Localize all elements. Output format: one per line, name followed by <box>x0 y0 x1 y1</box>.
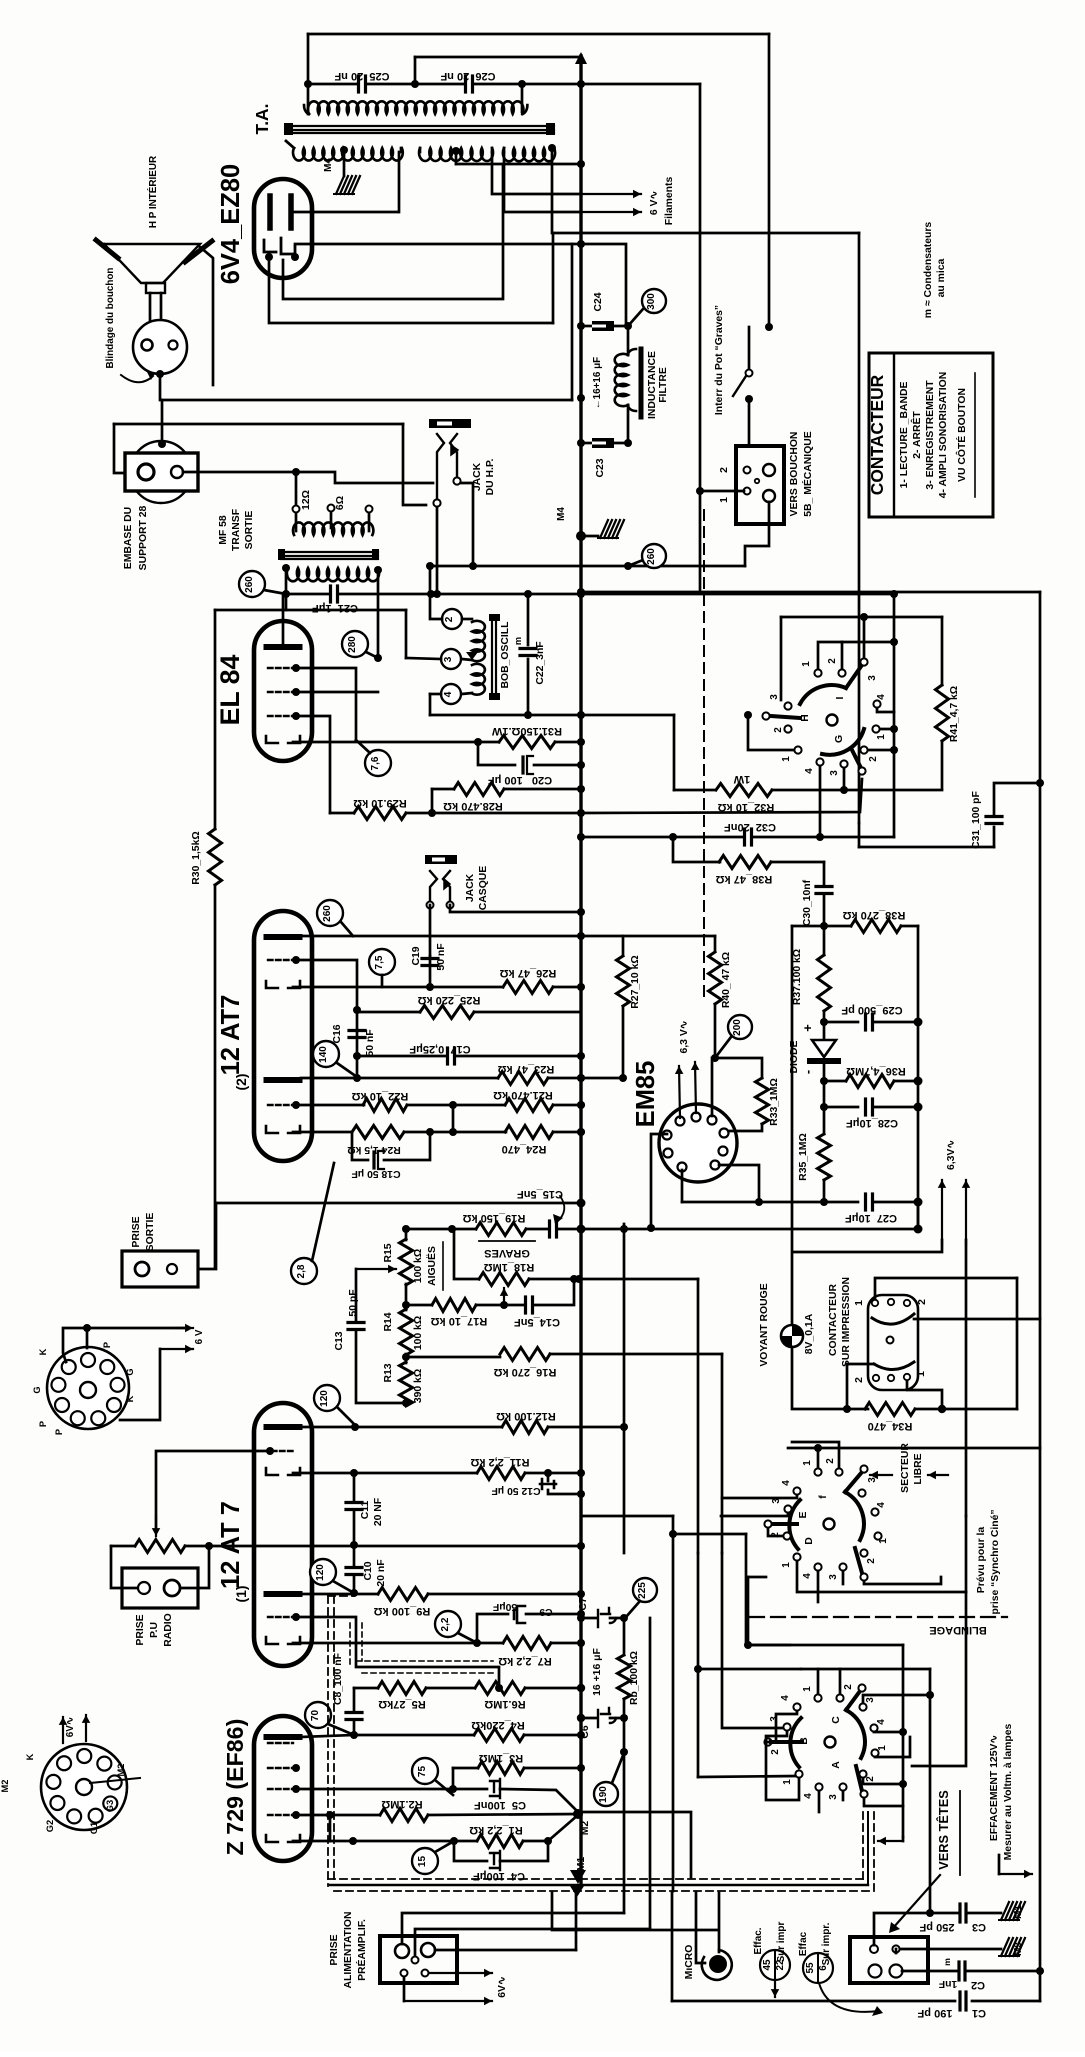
wire top-left down to transformer <box>307 34 310 114</box>
secondary 2 ends down <box>419 148 422 152</box>
svg-text:R11_2,2 kΩ: R11_2,2 kΩ <box>470 1456 529 1468</box>
pointer line 2,8 <box>312 1163 334 1261</box>
contacteur pins top <box>872 1300 878 1306</box>
wire 6V heater line 1 <box>492 152 581 194</box>
svg-text:200: 200 <box>732 1019 743 1036</box>
svg-text:6V∿: 6V∿ <box>497 1976 508 1997</box>
wafer DEF wires left <box>746 1644 790 1647</box>
node C24 right <box>624 322 632 330</box>
svg-text:R29.10 kΩ: R29.10 kΩ <box>353 797 407 809</box>
vers bouchon pin big top <box>763 464 775 476</box>
svg-text:4: 4 <box>803 1793 814 1799</box>
wafer DEF center <box>824 1519 835 1530</box>
svg-text:R22_10 kΩ: R22_10 kΩ <box>352 1090 409 1102</box>
svg-text:260: 260 <box>322 905 333 922</box>
heater arrows 6,3V right <box>941 1180 943 1245</box>
svg-text:1nF: 1nF <box>939 1978 957 1989</box>
node cathode2 x477 <box>473 1639 481 1647</box>
node R11 right <box>544 1469 552 1477</box>
wire y1229 line <box>406 1228 476 1231</box>
prise alim pin b2 <box>422 1970 429 1977</box>
svg-text:4: 4 <box>876 694 887 700</box>
MF58 terminal 6ohm <box>366 506 373 513</box>
svg-text:prise “Synchro Ciné”: prise “Synchro Ciné” <box>990 1509 1001 1614</box>
svg-text:2: 2 <box>917 1299 928 1305</box>
circle 7,5 <box>369 949 395 975</box>
node x624 y1224 <box>620 1225 628 1233</box>
MF58 primary winding <box>293 522 373 535</box>
svg-text:M4: M4 <box>556 507 567 521</box>
wire contacteur arc right <box>914 1318 1040 1321</box>
node x942 y1409 <box>938 1405 946 1413</box>
svg-text:R21.470 kΩ: R21.470 kΩ <box>493 1089 553 1101</box>
resistor R16.270k <box>406 1356 500 1359</box>
heater arrows 6,3V <box>679 1066 680 1118</box>
svg-text:G: G <box>834 735 845 743</box>
wire EM85 left pin to x651 <box>651 1134 667 1228</box>
svg-text:Effac: Effac <box>798 1931 809 1956</box>
node bus y1735 <box>577 1731 585 1739</box>
node y1229 x452 <box>448 1225 456 1233</box>
svg-text:3: 3 <box>443 656 454 662</box>
wire C21 right to bus <box>431 593 581 596</box>
circle 300 <box>628 309 643 326</box>
svg-text:C5 100nF: C5 100nF <box>474 1799 526 1811</box>
svg-text:4: 4 <box>443 691 454 697</box>
micro wires to shield <box>718 1893 721 1952</box>
resistor R4 220k <box>354 1734 474 1737</box>
resistor R38.270k <box>851 920 901 933</box>
circle 190 <box>594 1782 618 1806</box>
svg-text:140: 140 <box>318 1046 329 1063</box>
svg-text:1: 1 <box>719 497 730 503</box>
svg-text:7,6: 7,6 <box>370 756 381 770</box>
prise alim pin 1 <box>395 1944 409 1958</box>
heater arrow 2 <box>120 1349 160 1420</box>
svg-text:1W: 1W <box>733 773 750 785</box>
svg-text:7,5: 7,5 <box>374 955 385 969</box>
wafer GHI spoke upper <box>846 665 862 688</box>
curved pointer from 55/6 <box>819 1983 879 2012</box>
wire x894 end <box>893 750 896 837</box>
wire x1017 rail <box>1016 1278 1019 1409</box>
svg-text:SUPPORT 28: SUPPORT 28 <box>138 505 149 570</box>
shield dashes around grid wire <box>349 1623 351 1667</box>
node bus y742 <box>577 738 585 746</box>
wire y812 from bus to contact m <box>581 779 862 813</box>
svg-text:AIGUËS: AIGUËS <box>425 1246 438 1286</box>
capacitor C7 <box>581 1617 596 1620</box>
svg-text:2: 2 <box>868 756 879 762</box>
svg-text:4: 4 <box>876 1719 887 1725</box>
wire y715 <box>430 714 581 717</box>
resistor R5 27k <box>354 1687 378 1690</box>
ground M4 bus <box>581 535 598 538</box>
svg-text:MıCRO: MıCRO <box>684 1945 695 1980</box>
svg-text:2- ARRÊT: 2- ARRÊT <box>910 411 923 459</box>
capacitor C16 50nF <box>349 1029 365 1032</box>
svg-text:75: 75 <box>417 1766 428 1778</box>
wafer DEF spoke upper <box>845 1472 862 1492</box>
resistor R24 1,5k <box>352 1126 404 1139</box>
circle 120 b <box>310 1559 336 1585</box>
jack casque wire right <box>450 905 581 912</box>
wire x966 rail lower <box>912 1592 966 1766</box>
resistor R11 2,2k <box>477 1467 525 1480</box>
svg-text:H P INTÉRIEUR: H P INTÉRIEUR <box>148 156 159 228</box>
prise alim pin mid <box>412 1957 419 1964</box>
svg-text:G: G <box>32 1386 42 1393</box>
wire x748 to wafer <box>748 1576 766 1579</box>
svg-text:R27_10 kΩ: R27_10 kΩ <box>630 955 641 1008</box>
svg-text:Mesurer au Voltm. à lampes: Mesurer au Voltm. à lampes <box>1003 1723 1014 1860</box>
svg-text:8V_0,1A: 8V_0,1A <box>804 1313 815 1354</box>
contacteur arcs <box>872 1314 914 1324</box>
wire y610 line <box>286 594 406 610</box>
wafer ABC center <box>825 1737 836 1748</box>
bus junction dots <box>577 908 585 916</box>
svg-text:C19: C19 <box>411 946 422 965</box>
svg-text:190 pF: 190 pF <box>917 2007 952 2019</box>
node C21 right <box>427 590 435 598</box>
svg-text:C13: C13 <box>334 1331 345 1350</box>
wire y617 net <box>781 616 942 619</box>
svg-text:C21 1μF: C21 1μF <box>312 602 358 614</box>
volume pot <box>135 1540 185 1553</box>
capacitor C29 500pF <box>824 1021 858 1024</box>
node bus y789 <box>577 785 585 793</box>
svg-text:100 kΩ: 100 kΩ <box>413 1316 424 1350</box>
plug pin left <box>142 340 153 351</box>
wire contacts 1-2 up <box>818 642 842 669</box>
resistor R9 100k <box>301 1593 378 1596</box>
arrow to shield <box>902 1837 905 1841</box>
vers tetes box <box>850 1937 928 1983</box>
svg-text:M4: M4 <box>323 158 334 172</box>
12AT7-2 anode lower lead <box>301 1077 357 1080</box>
MF58 secondary left lead <box>282 564 290 572</box>
svg-text:LIBRE: LIBRE <box>913 1453 924 1484</box>
svg-text:6V∿: 6V∿ <box>65 1717 76 1737</box>
socket heater wires <box>63 1328 189 1362</box>
wire M3 line <box>895 1949 898 1953</box>
svg-text:16 +16 μF: 16 +16 μF <box>592 1648 603 1696</box>
tube 12AT7(1) envelope <box>254 1403 312 1666</box>
tube EL84 envelope <box>254 621 312 761</box>
inductance filtre <box>627 326 630 355</box>
wire 6V heater line 2 <box>504 152 581 212</box>
PU pin left <box>138 1582 150 1594</box>
heater wire y1252 <box>793 1240 942 1252</box>
svg-text:3: 3 <box>828 1794 839 1800</box>
12AT7-1 cathode <box>266 1468 278 1475</box>
svg-text:Blindage du bouchon: Blindage du bouchon <box>105 268 116 369</box>
6V4 cathode B+ lead <box>295 243 581 246</box>
wafer DEF spoke lower <box>855 1548 862 1573</box>
contacteur center <box>887 1337 894 1344</box>
svg-text:50 nF: 50 nF <box>365 1029 376 1056</box>
svg-text:C14_5nF: C14_5nF <box>514 1316 560 1328</box>
transformer TA primary winding <box>308 101 524 114</box>
svg-text:SUR IMPRESSION: SUR IMPRESSION <box>841 1277 852 1367</box>
wire R22 node down to cathode line <box>452 1105 455 1132</box>
svg-text:R5_27kΩ: R5_27kΩ <box>378 1698 426 1710</box>
node pot right <box>205 1542 213 1550</box>
speaker hatch left <box>96 240 118 258</box>
EL84 anode lead up <box>282 594 285 644</box>
vers bouchon pin 2 <box>744 467 751 474</box>
wire grid net down <box>356 1010 359 1056</box>
node x918 y1022 <box>914 1018 923 1027</box>
svg-text:R36_4,7MΩ: R36_4,7MΩ <box>846 1065 906 1077</box>
interr blade <box>733 376 746 396</box>
resistor R26 470 <box>505 1126 553 1139</box>
socket noval 12AT7 circle <box>47 1347 129 1429</box>
wafer ABC left spoke <box>771 1740 801 1744</box>
svg-text:C6: C6 <box>580 1725 591 1739</box>
svg-text:R34_470: R34_470 <box>868 1420 913 1432</box>
svg-text:MF 58: MF 58 <box>218 515 229 545</box>
svg-text:E: E <box>798 1511 809 1518</box>
capacitor C3 250pF <box>874 1913 958 1945</box>
svg-text:C25 20 nF: C25 20 nF <box>334 70 389 82</box>
circle 200 <box>728 1015 752 1039</box>
secondary 2 tap <box>452 147 460 155</box>
PU pin right <box>164 1580 180 1596</box>
Z729 grids mid <box>268 1742 293 1744</box>
wafer DEF wires top <box>817 1448 820 1468</box>
node bus y594 <box>577 590 585 598</box>
svg-text:2: 2 <box>866 1558 877 1564</box>
svg-text:BOB_OSCILL: BOB_OSCILL <box>500 621 511 689</box>
capacitor C21 <box>286 593 329 596</box>
wire x674 down <box>673 715 676 790</box>
svg-text:1: 1 <box>877 1745 888 1751</box>
wire spoke abc lower <box>864 1798 903 1806</box>
wire contact h left <box>748 716 794 750</box>
wire y164 from transformer tap <box>456 163 581 166</box>
bob oscill coil <box>472 621 485 661</box>
wafer GHI arc upper <box>800 685 846 704</box>
resistor R2 1M <box>296 1814 380 1817</box>
connector prise sortie box <box>122 1251 198 1287</box>
svg-text:260: 260 <box>244 576 255 593</box>
jack casque <box>425 855 457 864</box>
circle 280 <box>342 631 368 657</box>
node x918 y1081 <box>914 1077 923 1086</box>
svg-text:DU H.P.: DU H.P. <box>485 459 496 496</box>
svg-text:390 kΩ: 390 kΩ <box>413 1369 424 1403</box>
svg-text:20 NF: 20 NF <box>373 1498 384 1526</box>
wafer contacts right lower <box>872 725 879 732</box>
svg-text:-: - <box>800 1070 815 1074</box>
capacitor C25 <box>308 83 357 86</box>
wire circle4 down <box>429 694 432 715</box>
svg-text:(2): (2) <box>233 1074 249 1091</box>
svg-text:au mica: au mica <box>936 258 947 297</box>
svg-text:70: 70 <box>310 1710 321 1722</box>
svg-text:R23_47 kΩ: R23_47 kΩ <box>498 1063 555 1075</box>
node R29/R28 <box>428 809 436 817</box>
capacitor C20 100uF <box>478 742 515 765</box>
effacement arrow <box>998 1855 1001 1874</box>
transformer TA secondary winding 3 <box>503 148 555 161</box>
wire top rail <box>308 33 769 36</box>
svg-text:R13: R13 <box>383 1363 394 1382</box>
svg-text:250 pF: 250 pF <box>919 1921 954 1933</box>
svg-text:M1: M1 <box>1013 1905 1024 1919</box>
svg-text:6,3V∿: 6,3V∿ <box>946 1140 957 1170</box>
svg-text:55: 55 <box>805 1962 816 1973</box>
resistor R19 150k <box>476 1223 526 1236</box>
lamp leads <box>792 1347 868 1409</box>
svg-text:R14: R14 <box>383 1312 394 1331</box>
wire y1669 <box>698 1668 801 1671</box>
node interr top <box>765 323 773 331</box>
12AT7-1 grid lead to pot <box>156 1451 270 1530</box>
wire x966 rail bridge <box>965 1516 968 1592</box>
svg-text:3: 3 <box>865 1697 876 1703</box>
left rail x215 <box>214 610 217 829</box>
svg-text:C16: C16 <box>332 1024 343 1043</box>
svg-text:2,2: 2,2 <box>440 1617 451 1631</box>
resistor R17 10k <box>406 1304 432 1307</box>
svg-text:R7_2,2 kΩ: R7_2,2 kΩ <box>498 1655 552 1667</box>
capacitor C2 1nF <box>902 1970 957 1973</box>
svg-text:M2: M2 <box>0 1780 10 1793</box>
wire x698 lower <box>697 1553 700 1777</box>
left rail x215 lower <box>214 885 217 1268</box>
svg-text:R26_47 kΩ: R26_47 kΩ <box>500 967 557 979</box>
interr contact circle <box>746 370 753 377</box>
wire x722 down <box>721 1354 724 1553</box>
wire x859 bottom <box>858 823 861 847</box>
node grid2 net <box>374 654 382 662</box>
capacitor C6 <box>581 1717 596 1720</box>
svg-text:C10: C10 <box>363 1561 374 1580</box>
node y1229 x406 <box>402 1225 410 1233</box>
lamp voyant rouge <box>781 1325 803 1347</box>
prise alim wire 3 <box>435 1949 576 1952</box>
interr wire to box <box>748 399 751 446</box>
prise alim arrow 1 <box>430 1972 492 1974</box>
circle 2,8 <box>291 1258 317 1284</box>
wire C16 net to anode lower <box>356 1056 359 1078</box>
socket EF86 center <box>76 1779 92 1795</box>
wire em85 right bottom pin <box>719 1165 759 1202</box>
node x624 y1427 <box>620 1423 628 1431</box>
graves pot R18 <box>479 1273 529 1286</box>
circle 15 <box>412 1848 438 1874</box>
capacitor C12 50uF <box>547 1473 550 1481</box>
svg-text:12Ω: 12Ω <box>301 490 312 510</box>
svg-text:4: 4 <box>876 1502 887 1508</box>
resistor R22.10k <box>296 1104 364 1107</box>
wire y1448 <box>788 1447 1040 1450</box>
svg-text:120: 120 <box>315 1564 326 1581</box>
svg-text:CONTACTEUR: CONTACTEUR <box>867 374 887 495</box>
svg-text:T.A.: T.A. <box>252 104 272 135</box>
svg-text:300: 300 <box>646 293 657 310</box>
pot wiper arrow <box>155 1516 157 1536</box>
MF58 core <box>281 551 378 553</box>
wire PU right <box>181 1546 209 1588</box>
svg-text:PRÉAMPLIF.: PRÉAMPLIF. <box>355 1919 368 1981</box>
capacitor C4 100uF <box>454 1841 487 1861</box>
circle 75 <box>412 1758 438 1784</box>
wire y1409 right <box>942 1408 1017 1411</box>
wire R29 line <box>406 812 432 815</box>
svg-text:R17_10 kΩ: R17_10 kΩ <box>431 1315 488 1327</box>
node y566 x430 <box>426 562 434 570</box>
wire x572 vert <box>571 244 574 400</box>
EL84 grid2 <box>268 691 293 693</box>
6V4 anode lead <box>291 211 398 214</box>
wire y592 bus to right rail <box>581 591 1040 594</box>
svg-text:4: 4 <box>780 1695 791 1701</box>
node x406 y1357 <box>402 1353 410 1361</box>
svg-text:3: 3 <box>769 694 780 700</box>
EL84 cathode lead <box>293 741 499 744</box>
transformer TA secondary winding 2 <box>419 148 493 161</box>
jack du HP bar <box>429 419 471 428</box>
embase pin right <box>171 466 183 478</box>
svg-text:6 V: 6 V <box>194 1329 205 1344</box>
tube EM85 circle <box>659 1104 737 1182</box>
svg-text:G1: G1 <box>89 1822 99 1834</box>
capacitor C27 10uF <box>682 1201 858 1204</box>
node bus y1473 <box>577 1469 585 1477</box>
svg-text:Filaments: Filaments <box>664 177 675 226</box>
svg-text:Sur impr.: Sur impr. <box>821 1922 832 1965</box>
svg-text:6Ω: 6Ω <box>335 496 346 510</box>
svg-text:3: 3 <box>769 1716 780 1722</box>
wire contacteur bottom right pin <box>907 1381 942 1409</box>
svg-text:R6.1MΩ: R6.1MΩ <box>484 1698 525 1710</box>
wire bob oscill 3 vert <box>405 610 408 658</box>
svg-text:100 kΩ: 100 kΩ <box>413 1249 424 1283</box>
svg-text:P.U: P.U <box>149 1622 160 1638</box>
svg-text:R25_220 kΩ: R25_220 kΩ <box>418 994 481 1006</box>
svg-text:Interr du Pot “Graves”: Interr du Pot “Graves” <box>714 305 725 415</box>
wire y813 to bus <box>432 812 581 815</box>
12AT7-1 cathode lead R11 <box>293 1472 477 1475</box>
bus arrow bottom <box>570 1870 586 1884</box>
svg-text:3: 3 <box>867 675 878 681</box>
node bus M4 big <box>576 531 586 541</box>
node bus y1078 <box>577 1074 585 1082</box>
capacitor C14 5nF <box>504 1304 524 1307</box>
svg-text:SORTIE: SORTIE <box>145 1213 156 1252</box>
wire circle2 net <box>430 566 442 619</box>
capacitor C26 <box>415 83 465 86</box>
capacitor C1 190pF <box>958 1992 961 2010</box>
12AT7-1 cathode2 <box>266 1637 278 1644</box>
wire box bottom out <box>745 502 769 566</box>
svg-text:R12.100 kΩ: R12.100 kΩ <box>496 1410 556 1422</box>
node wiper <box>500 1301 508 1309</box>
node x624 y1718 <box>620 1714 628 1722</box>
svg-text:6,3 V∿: 6,3 V∿ <box>679 1021 690 1054</box>
vers bouchon center pin <box>755 479 759 483</box>
shield dashed right corner up <box>862 1810 864 1879</box>
wire 6V4 bottom to transformer secondary2 <box>283 164 503 299</box>
wire speaker right corner <box>200 247 213 385</box>
jack du HP contact left <box>437 434 444 498</box>
jack du HP contact right <box>450 434 457 477</box>
svg-text:R16_270 kΩ: R16_270 kΩ <box>494 1366 557 1378</box>
wire r28 up <box>431 789 434 813</box>
